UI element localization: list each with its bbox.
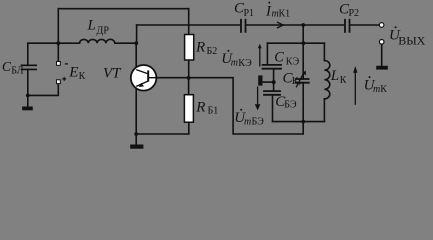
svg-text:БЭ: БЭ: [284, 100, 297, 111]
wire Cbl to ground: [27, 69, 29, 106]
svg-text:К: К: [340, 75, 347, 86]
label UmKE with dot: [221, 50, 252, 69]
ground (Cbl): [22, 107, 33, 111]
label Ldr: [87, 18, 110, 37]
svg-text:Р1: Р1: [244, 8, 255, 19]
node Ek top junction: [56, 41, 60, 45]
svg-text:К,: К,: [292, 76, 301, 87]
node capacitor midpoint junction: [272, 80, 276, 84]
label Ck: [283, 70, 301, 87]
node emitter ground junction: [134, 132, 138, 136]
inductor Lk coil: [324, 61, 329, 99]
node output rail junction: [301, 23, 305, 27]
svg-text:m: m: [244, 116, 251, 127]
wire midpoint line to emitter bar: [263, 81, 274, 83]
label UmK with dot: [364, 76, 388, 95]
svg-text:КЭ: КЭ: [286, 57, 300, 68]
wire left vertical from top rail to Ek terminal: [57, 9, 59, 62]
svg-text:VT: VT: [103, 65, 122, 81]
wire emitter ground stub: [135, 134, 137, 145]
svg-text:R: R: [195, 100, 205, 116]
wire base node to Rb1: [188, 78, 190, 95]
svg-text:m: m: [231, 58, 238, 69]
svg-text:Р2: Р2: [349, 8, 360, 19]
label Cp1: [234, 0, 254, 19]
svg-text:E: E: [68, 64, 78, 80]
svg-text:БЭ: БЭ: [252, 117, 265, 128]
svg-text:КЭ: КЭ: [238, 58, 252, 69]
wire collector lead down to transistor: [135, 43, 137, 69]
capacitor Cp1 plates: [241, 20, 246, 32]
svg-text:БЛ: БЛ: [11, 66, 23, 77]
capacitor Cbl plates: [22, 65, 37, 69]
arrow UmKE (up): [258, 44, 262, 67]
label RB1: [195, 100, 218, 117]
wire Ek plus to Cbl ground node: [28, 84, 59, 96]
node tank bottom junction: [301, 120, 305, 124]
arrow UmBE (down): [255, 87, 261, 111]
label ImK1 with dot: [265, 2, 290, 20]
label Lk: [330, 68, 347, 86]
label Cbl: [2, 59, 24, 77]
svg-text:К1: К1: [279, 9, 291, 20]
label RB2: [195, 40, 217, 57]
wire collector tee up to output rail: [136, 25, 138, 43]
terminal output lower circle: [379, 40, 384, 45]
ground (output): [376, 66, 388, 70]
ground (emitter): [130, 145, 143, 149]
resistor RB2: [185, 35, 194, 61]
svg-text:ВЫХ: ВЫХ: [398, 33, 425, 47]
wire tank top arm: [267, 42, 324, 44]
wire Cke bottom lead to midpoint: [273, 69, 275, 82]
svg-text:L: L: [87, 18, 96, 34]
label Uvyh with dot: [389, 26, 426, 47]
terminal output upper circle: [379, 23, 384, 28]
inductor Ldr: [80, 39, 115, 43]
capacitor Cp2 plates: [345, 20, 350, 32]
emitter electrode bar: [258, 75, 262, 85]
capacitor Cbe plates: [264, 91, 280, 95]
Ek plus sign: [62, 77, 66, 81]
svg-text:ДР: ДР: [97, 26, 110, 37]
svg-text:R: R: [195, 40, 205, 56]
svg-text:C: C: [274, 50, 284, 66]
label UmBE with dot: [234, 109, 264, 128]
wire output junction down to cross: [302, 25, 304, 43]
wire base lead from transistor to divider node: [156, 77, 189, 79]
node Cbl ground junction: [26, 94, 30, 98]
transistor VT: [131, 65, 157, 91]
junction node dots: [26, 23, 305, 136]
wire output rail to terminal: [350, 24, 379, 26]
wire Cbe top lead: [273, 82, 275, 91]
wire emitter ground rail to Rb1: [136, 122, 189, 134]
wire Cbe bottom lead to tank rail: [272, 95, 274, 122]
wire base line to the right and down: [189, 78, 304, 134]
wire Ck branch: [302, 43, 304, 121]
wire output rail right segment: [246, 24, 344, 26]
wire coil to collector junction: [115, 42, 137, 44]
label Cp2: [339, 1, 359, 19]
wire Rb2 top lead from top rail: [188, 9, 190, 35]
capacitor Cke plates: [263, 65, 282, 69]
capacitor Ck plates: [296, 79, 309, 83]
svg-text:К: К: [79, 71, 86, 82]
terminal Ek upper square: [57, 62, 61, 66]
svg-text:К: К: [380, 84, 387, 95]
current arrow ImK1: [278, 22, 284, 27]
Ek minus sign: [65, 63, 68, 65]
terminal Ek lower square: [57, 80, 61, 84]
label Cke: [274, 50, 299, 68]
node tank cross junction: [302, 41, 306, 45]
svg-text:Б1: Б1: [208, 105, 219, 116]
node base divider junction: [187, 76, 191, 80]
resistor RB1: [184, 95, 193, 123]
wire tank bottom rail: [273, 121, 325, 123]
label Cbe: [275, 94, 297, 111]
variable capacitor Ck arrow: [296, 70, 306, 87]
wire top rail: [58, 8, 188, 10]
svg-text:m: m: [373, 84, 380, 95]
svg-text:Б2: Б2: [207, 46, 218, 57]
svg-text:L: L: [330, 68, 339, 84]
wire Rb2 bottom lead to base node: [188, 60, 190, 78]
arrow UmK (up): [353, 66, 357, 105]
wire output terminal ground stub: [381, 44, 383, 66]
wire Lk top lead: [323, 43, 325, 60]
wire Cke top lead: [266, 43, 268, 65]
wire output rail left segment: [137, 24, 241, 26]
wire emitter lead down to ground rail: [135, 87, 137, 134]
node collector junction: [134, 41, 138, 45]
label Ek: [68, 64, 85, 82]
wire second rail with corner down to Cbl: [28, 43, 80, 65]
wire Lk bottom lead: [323, 99, 325, 122]
